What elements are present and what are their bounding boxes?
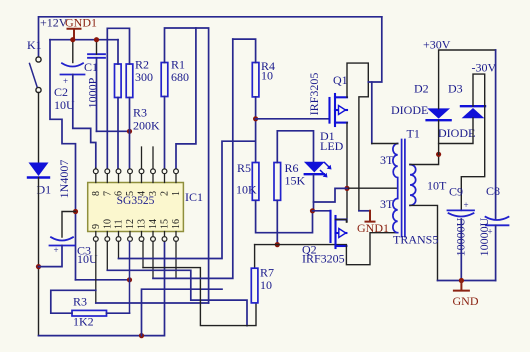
wire Q2 gate lead [313,210,331,212]
svg-text:IC1: IC1 [185,190,203,204]
wire primary top lead [372,143,398,145]
transformer T1 secondary winding [410,165,416,206]
diode D3 [461,106,485,118]
junction dot C2 on rail2 [70,37,75,42]
svg-text:680: 680 [171,70,189,84]
svg-text:3T: 3T [380,197,394,211]
wire C1 top lead [96,40,98,55]
svg-text:R3: R3 [133,106,147,120]
pin 13 bottom [141,232,143,236]
svg-text:15K: 15K [285,174,306,188]
wire C8 bottom lead [495,225,497,280]
resistor R3 1K2 box [72,310,107,316]
svg-text:-30V: -30V [472,61,497,75]
wire top rail down to node [368,17,382,82]
svg-text:10: 10 [260,278,272,292]
svg-text:16: 16 [171,219,182,229]
svg-text:TRANS5: TRANS5 [393,233,438,247]
svg-text:200K: 200K [133,119,160,133]
svg-text:K1: K1 [27,38,42,52]
svg-text:2: 2 [160,191,171,196]
svg-text:R5: R5 [237,161,251,175]
wire rail2 left staircase to C3 dot [50,40,76,280]
junction dot C3 top node [73,209,78,214]
wire D2 top to +30V rail [439,50,496,109]
capacitor C2 [61,63,85,74]
svg-text:10K: 10K [236,183,257,197]
wire pin14 horizontal to R4 column [153,39,233,278]
svg-text:3T: 3T [380,153,394,167]
IC pins top circles and numbers [93,147,178,313]
wire GND1 net to pin12 horizontal [76,279,130,281]
wire GND1 rail2 [50,39,118,41]
pin number labels bottom row [91,219,182,229]
svg-text:D3: D3 [448,82,463,96]
svg-text:1000P: 1000P [86,77,100,108]
svg-text:7: 7 [102,191,113,196]
wire D2 bottom to node [438,121,440,155]
svg-text:11: 11 [114,219,125,229]
svg-text:13: 13 [137,219,148,229]
resistor R4 10 box [252,63,259,97]
pin 9 bottom [95,232,97,236]
svg-text:Q1: Q1 [333,73,348,87]
svg-text:3: 3 [148,191,159,196]
svg-text:10T: 10T [427,179,447,193]
svg-text:DIODE: DIODE [438,126,475,140]
pin 10 bottom [106,232,108,236]
wire R4 top loop [233,39,256,62]
wire Q1 source down to Q2 drain [346,123,348,222]
pin 4 top stub [141,147,143,169]
wire branch to GND1 symbol [359,210,370,212]
transformer T1 primary winding [393,144,398,233]
svg-text:1K2: 1K2 [73,315,94,329]
junction dot bottom rail [139,333,144,338]
svg-text:IRF3205: IRF3205 [302,252,345,266]
svg-text:10000U: 10000U [477,217,491,256]
svg-text:IRF3205: IRF3205 [307,73,321,116]
junction dot Q2 gate node [310,208,315,213]
svg-text:9: 9 [91,224,102,229]
wire pin5 node horizontal [97,130,130,132]
pin 12 bottom [129,232,131,236]
pin 6 top [116,169,121,174]
wire source rail R7 R6 Q2 [255,244,347,246]
resistor R6 15K box [274,163,281,201]
svg-text:10: 10 [102,219,113,229]
diode D2 [427,108,451,120]
wire Q1 drain up and over [347,63,368,211]
wire C3 top corner [62,212,76,238]
resistor R7 10 box [251,268,258,303]
svg-text:+12V: +12V [40,16,68,30]
wire center tap horizontal [347,187,398,189]
wire pin11 to gate node column [119,141,255,258]
wire Q2 drain stub [336,220,347,223]
junction dot pin5 node [127,129,132,134]
power bar GND1 [68,29,81,40]
pin 8 top [95,168,97,169]
svg-text:6: 6 [114,191,125,196]
pin 15 bottom [164,232,166,236]
capacitor C9 [448,210,475,216]
svg-text:15: 15 [160,219,171,229]
wire C9 bottom lead [460,219,462,281]
junction dot C3 minus on left rail [36,264,41,269]
svg-text:DIODE: DIODE [391,103,428,117]
pin 11 bottom [118,232,120,236]
LED D1 [304,162,332,178]
wire R7 top lead [254,245,256,269]
svg-text:+: + [464,200,469,210]
svg-text:D2: D2 [414,82,429,96]
capacitor C1 [88,54,105,58]
transformer core lines [402,140,405,237]
wire C2 top lead [72,40,74,63]
wire gate node A to Q1 gate [256,118,330,120]
wire secondary bottom lead [410,205,438,280]
wire left rail D1 to bottom [38,178,40,336]
capacitor C3 [50,237,75,245]
svg-text:C8: C8 [486,184,500,198]
wire R6 top to LED anode [277,131,313,163]
wire top +12V rail [39,17,382,57]
wire left rail below K1 [38,93,40,163]
wire Q2 source to primary bottom [346,233,397,265]
svg-text:12: 12 [125,219,136,229]
wire LED cathode down [313,175,315,211]
pin 16 bottom [175,232,177,236]
IC1 SG3525 box [88,183,184,232]
switch K1 [30,57,42,93]
wire C3 bottom lead [39,246,63,267]
wire C1 bottom to pin5 node [96,58,98,132]
wire bottom rail [39,240,165,336]
svg-text:1N4007: 1N4007 [57,160,71,199]
wire R2 bottom to pin5 [129,98,131,170]
pin 14 bottom [152,232,154,236]
svg-text:GND1: GND1 [65,16,97,30]
wire +30V vertical to C8 [495,50,497,220]
capacitor C8 [486,217,509,226]
wire R6 bottom lead [276,200,278,244]
wire secondary top lead [410,154,439,164]
resistor R2 300 box [126,64,133,98]
svg-text:C2: C2 [54,85,68,99]
wire pin10 staircase [107,270,247,325]
wire C2 bottom to pin8 staircase [73,75,96,170]
pin 3 top stub [152,147,154,169]
pin 2 top [162,169,167,174]
wire R4 bottom to R5 top [255,97,257,163]
wire LED node to center node [314,188,348,202]
wire R5 bottom to Q2 gate node [256,200,313,232]
wire bottom rail branch to pin11 column [142,289,223,335]
pin 1 top [174,169,179,174]
svg-text:4: 4 [137,191,148,196]
ground GND symbol [454,281,469,291]
junction dot gate node A [253,116,258,121]
wire R2 top loop to pin7 [107,28,129,169]
junction dot pin12 node [127,277,132,282]
svg-text:300: 300 [135,70,153,84]
ground GND1 symbol [366,211,375,222]
junction dot C1 on rail2 [94,37,99,42]
MOSFET Q1 IRF3205 [330,94,348,126]
svg-text:5: 5 [125,191,136,196]
svg-text:+: + [54,245,59,255]
pin 5 top [128,169,133,174]
wire R3 200K bottom to pin6 [117,98,119,170]
svg-text:10: 10 [261,69,273,83]
pin 7 top [105,169,110,174]
svg-text:T1: T1 [407,127,420,141]
junction dot secondary top node [436,152,441,157]
resistor R1 680 box [161,63,168,97]
svg-text:LED: LED [320,139,344,153]
junction dot center tap node [344,186,349,191]
wire pin9 horizontal to R1 vertical [96,302,209,304]
svg-text:R3: R3 [73,295,87,309]
wire R1 bottom to pin2 [164,97,166,170]
wire pin1 staircase [176,28,196,169]
pin number labels top row [91,191,182,196]
svg-text:14: 14 [148,219,159,229]
svg-text:1: 1 [171,191,182,196]
svg-text:10U: 10U [77,252,98,266]
wire R1 top loop long right vertical to pin9 H [165,28,209,303]
wire R3 1K2 right lead to pin12 [107,312,130,314]
wire D3 top to -30V [461,74,484,210]
MOSFET Q2 IRF3205 [331,211,347,248]
diode D1 1N4007 [28,163,49,178]
svg-text:+30V: +30V [423,38,451,52]
junction dot R6 bottom [275,242,280,247]
junction dot GND node [459,278,464,283]
svg-text:8: 8 [91,191,102,196]
wire branch down to primary top [371,82,373,144]
wire bottom right rail [438,280,496,282]
svg-text:GND: GND [453,294,479,308]
svg-text:C9: C9 [449,185,463,199]
resistor R3 200K box [115,64,122,98]
wire R3 200K top lead [117,40,119,64]
resistor R5 10K box [252,163,259,201]
wire R3 1K2 left lead to pin9 [51,290,96,313]
wire pin13 to R7 bottom [143,268,256,326]
wire D3 bottom to node [439,118,473,144]
svg-text:10U: 10U [54,98,75,112]
